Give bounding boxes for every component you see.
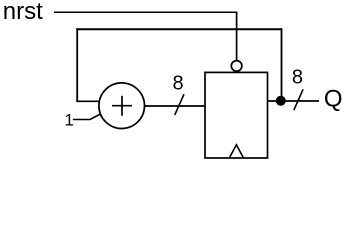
svg-text:8: 8 — [292, 67, 303, 89]
svg-text:Q: Q — [324, 86, 343, 113]
junction dot — [276, 96, 286, 106]
wire feedback top — [76, 28, 282, 30]
adder U2 — [99, 83, 145, 129]
svg-text:8: 8 — [172, 73, 183, 95]
bus width slash right — [294, 89, 303, 110]
clock input triangle — [229, 145, 243, 158]
bus width slash left — [175, 94, 184, 115]
adder plus sign — [112, 96, 132, 116]
svg-text:nrst: nrst — [3, 0, 43, 25]
wire nrst horizontal — [54, 11, 237, 13]
wire constant 1 input — [73, 114, 101, 120]
wire adder to register bus — [144, 105, 205, 107]
active-low reset bubble — [231, 61, 242, 72]
svg-text:1: 1 — [64, 110, 73, 129]
wire feedback right vertical — [281, 28, 283, 100]
wire feedback left vertical — [76, 28, 78, 102]
wire nrst vertical — [236, 12, 238, 61]
wire register to Q bus — [268, 100, 320, 102]
wire feedback into adder — [77, 100, 100, 102]
register U1 — [205, 72, 268, 158]
